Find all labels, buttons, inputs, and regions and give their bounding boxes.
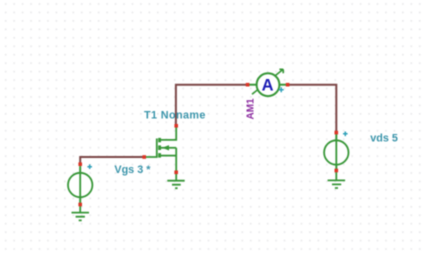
ground at VS1 [72,213,90,221]
svg-text:AM1: AM1 [245,98,256,120]
transistor T1: source lead [161,155,177,157]
wire: VS2 bottom to ground [335,165,337,181]
node marker: T1 drain terminal [174,124,178,128]
voltage source VS1 (Vgs): top lead [79,166,81,173]
svg-text:T1 Noname: T1 Noname [144,110,206,122]
node marker: VS1 ground junction [78,203,82,207]
svg-text:vds 5: vds 5 [370,133,398,145]
transistor T1: channel dash middle [158,145,161,150]
node marker: T1 source ground junction [174,171,178,175]
ammeter AM1: body circle [257,73,280,96]
wire: AM1 right terminal across and down to VS2 plus terminal [288,85,336,133]
ammeter AM1: arrow through meter [252,69,283,94]
voltage source VS2: body circle [324,140,348,164]
voltage source VS2: center line [335,135,337,171]
node marker: VS2 plus terminal [335,131,339,135]
voltage source VS1: plus polarity mark [87,164,92,169]
voltage source VS2 (vds): top lead [335,134,337,141]
node marker: AM1 right terminal [286,83,290,87]
voltage source VS2: plus polarity mark [343,132,348,137]
svg-text:Vgs 3 *: Vgs 3 * [114,164,151,176]
node marker: VS1 plus terminal [78,162,82,166]
node marker: VS2 ground junction [335,169,339,173]
ammeter AM1: right lead [279,84,289,86]
voltage source VS1: center line [79,167,81,205]
node marker: AM1 left terminal [246,83,250,87]
wire: VS1 plus terminal up and right to T1 gate terminal [80,157,144,165]
wire: VS1 bottom to ground [79,197,81,212]
ground at T1 source [167,181,184,189]
svg-text:A: A [262,76,274,94]
ammeter AM1: plus polarity mark [279,87,284,92]
transistor T1: body lead with arrow [161,147,177,149]
transistor T1: channel dash bottom [158,153,161,158]
wire: T1 drain up and across to AM1 left terminal [176,85,248,126]
transistor T1 (NMOS): gate lead and gate bar [145,139,157,158]
wire: T1 source down to ground [175,148,177,181]
transistor T1: drain lead [161,126,177,140]
ground at VS2 [328,180,346,188]
ammeter AM1: left lead [249,84,257,86]
transistor T1: channel dash top [158,138,161,142]
voltage source VS1: body circle [68,173,92,197]
node marker: T1 gate terminal [142,155,146,159]
